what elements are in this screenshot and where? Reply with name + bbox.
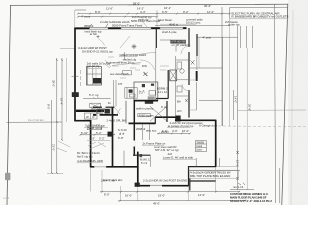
dark box above X bbox=[145, 100, 153, 104]
bottom mid wall y166.8 bbox=[90, 166, 138, 168]
left dim ticks bbox=[51, 59, 63, 174]
interior wall x189 vertical bbox=[188, 28, 190, 118]
right exterior wall x215.7 bbox=[215, 120, 217, 167]
vertical ext line x222 bbox=[221, 7, 223, 126]
thick band y109.5 bbox=[76, 110, 104, 112]
right dim pair lines bbox=[233, 90, 235, 120]
wall x188.4 up bbox=[188, 166, 190, 186]
inner sheet border right bbox=[275, 5, 276, 203]
porch lines right wing bbox=[197, 36, 238, 38]
left vertical dim line 1 bbox=[56, 58, 58, 173]
step wall bottom-left bbox=[74, 120, 91, 122]
left vertical dim line 3 bbox=[66, 58, 68, 122]
porch slab walls bottom right bbox=[189, 179, 191, 191]
bathroom small rooms left of x189 wall bbox=[176, 59, 189, 61]
left margin long line y122 bbox=[7, 121, 63, 123]
scanner edge right gray bbox=[288, 0, 308, 205]
ext line up from left wall bbox=[74, 10, 76, 28]
bottom dim line 2 bbox=[118, 199, 246, 201]
kitchen counter marks bbox=[125, 88, 137, 99]
wall x134.3 bbox=[133, 100, 135, 156]
wall x197 upper bbox=[196, 34, 198, 56]
wall x137.8 bbox=[137, 152, 139, 187]
right page edge tilted bbox=[282, 4, 288, 205]
wall x156 from top wall down bbox=[155, 28, 157, 48]
W/D boxes bbox=[84, 113, 97, 119]
step join vertical bbox=[154, 117, 156, 124]
short garage leader line bbox=[60, 48, 75, 50]
dashed line y126 bbox=[218, 125, 306, 128]
band y114.8 bbox=[93, 114, 96, 116]
bath fixtures bbox=[142, 84, 145, 87]
ceiling fan symbol bbox=[132, 44, 137, 49]
top dim line C over right wing bbox=[155, 25, 230, 27]
girder truss note right bbox=[189, 169, 241, 171]
line under note rows bbox=[167, 127, 190, 129]
misc marks center bbox=[123, 151, 125, 167]
horizontal interior y40 bbox=[160, 39, 171, 41]
dim line y134.8 bbox=[80, 134, 115, 136]
top wall windows (double line) bbox=[90, 27, 184, 29]
right page edge streak bbox=[291, 10, 293, 205]
wall y155.2 bbox=[133, 154, 151, 156]
band y107.5 right part bbox=[93, 106, 102, 108]
left border bbox=[7, 5, 11, 205]
top dim line B bbox=[78, 16, 157, 18]
top dim line A bbox=[78, 13, 230, 15]
left margin stamp blob bbox=[5, 173, 10, 180]
bottom wall gap bbox=[150, 185, 162, 187]
wall x112.5 bbox=[112, 108, 114, 168]
thin line y98.5 bbox=[83, 98, 111, 100]
MWIC thin verticals bbox=[142, 124, 144, 140]
big X stair cross bbox=[150, 106, 167, 121]
top exterior wall bbox=[75, 27, 187, 29]
top border bbox=[10, 4, 288, 5]
wall y166.6 right wing bottom bbox=[188, 166, 216, 168]
marks between bands bbox=[97, 109, 101, 112]
bath wall bottom thick bbox=[134, 100, 158, 102]
corner cluster dark at 175-181 y115-125 bbox=[175, 116, 180, 122]
boxed label master bbox=[87, 126, 101, 130]
dim ticks on line A bbox=[77, 13, 231, 15]
closet label dark box bbox=[170, 40, 186, 44]
bathroom box bbox=[134, 82, 158, 101]
door gaps in x189 wall bbox=[188, 85, 190, 90]
vertical ext line x237.5 bbox=[237, 26, 239, 190]
bdrm2 left wall x167 bbox=[166, 101, 168, 122]
boxed label mid bbox=[138, 114, 151, 117]
long faint vertical x247 bbox=[246, 48, 248, 190]
left vertical dim line 0 bbox=[51, 100, 53, 173]
cluster marks utility bbox=[105, 109, 110, 114]
bottom exterior wall y185.6 bbox=[137, 185, 189, 187]
interior wall x196.7 bbox=[196, 56, 198, 70]
interior wall y123.4 bbox=[129, 122, 156, 124]
wall tick bbox=[72, 75, 79, 77]
note box frame bbox=[230, 6, 288, 8]
left vertical dim line 2 bbox=[61, 58, 63, 140]
hall lines x113.5 pair bbox=[113, 80, 115, 107]
dark duct box on wall bbox=[72, 92, 79, 97]
bottom dim line 1 bbox=[100, 190, 240, 192]
right house wall blob bbox=[196, 71, 198, 81]
fireplace built-in unit bbox=[87, 67, 102, 85]
interior wall y117.2 bbox=[155, 116, 178, 118]
wall x90.6 down bbox=[90, 120, 92, 167]
bottom extension lines bbox=[90, 167, 92, 191]
short verticals under note box bbox=[240, 26, 242, 48]
left exterior wall bbox=[74, 28, 76, 122]
great room misc marks bbox=[124, 52, 126, 60]
linen box w/ X bbox=[90, 103, 101, 108]
bdrm2 door arc bbox=[181, 46, 189, 54]
small schedule box bbox=[195, 141, 206, 152]
wall y120.2 bbox=[175, 119, 216, 121]
dim line right of bottom corner bbox=[230, 189, 254, 191]
